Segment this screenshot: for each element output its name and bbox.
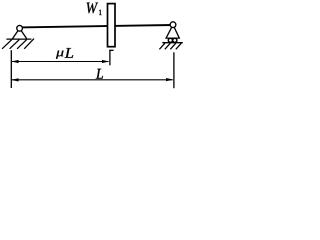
right extension line: [173, 52, 175, 88]
arrow muL left: [11, 60, 18, 63]
right support hatching: [159, 43, 181, 49]
arrow muL right: [102, 60, 109, 63]
right support triangle: [166, 25, 179, 38]
roller right: [173, 38, 177, 42]
left extension line: [10, 50, 12, 88]
right support ground line: [162, 42, 183, 44]
arrow L left: [11, 78, 18, 81]
label muL - letter L: [65, 48, 74, 58]
dimension line L: [12, 79, 173, 81]
disc extension tick: [109, 49, 113, 51]
disc (weight W1): [108, 4, 116, 47]
roller left: [168, 38, 172, 42]
arrow L right: [166, 78, 173, 81]
label L: [96, 69, 103, 79]
left support ground line: [6, 38, 31, 40]
beam (shaft): [20, 25, 174, 27]
label muL: [56, 51, 64, 59]
left support triangle legs: [12, 28, 27, 39]
left support hatching: [2, 39, 34, 49]
dimension line muL: [12, 61, 109, 63]
label W1: [87, 3, 99, 14]
disc extension line: [109, 50, 111, 65]
left support pin circle: [17, 25, 23, 31]
right support pin circle: [170, 22, 176, 28]
